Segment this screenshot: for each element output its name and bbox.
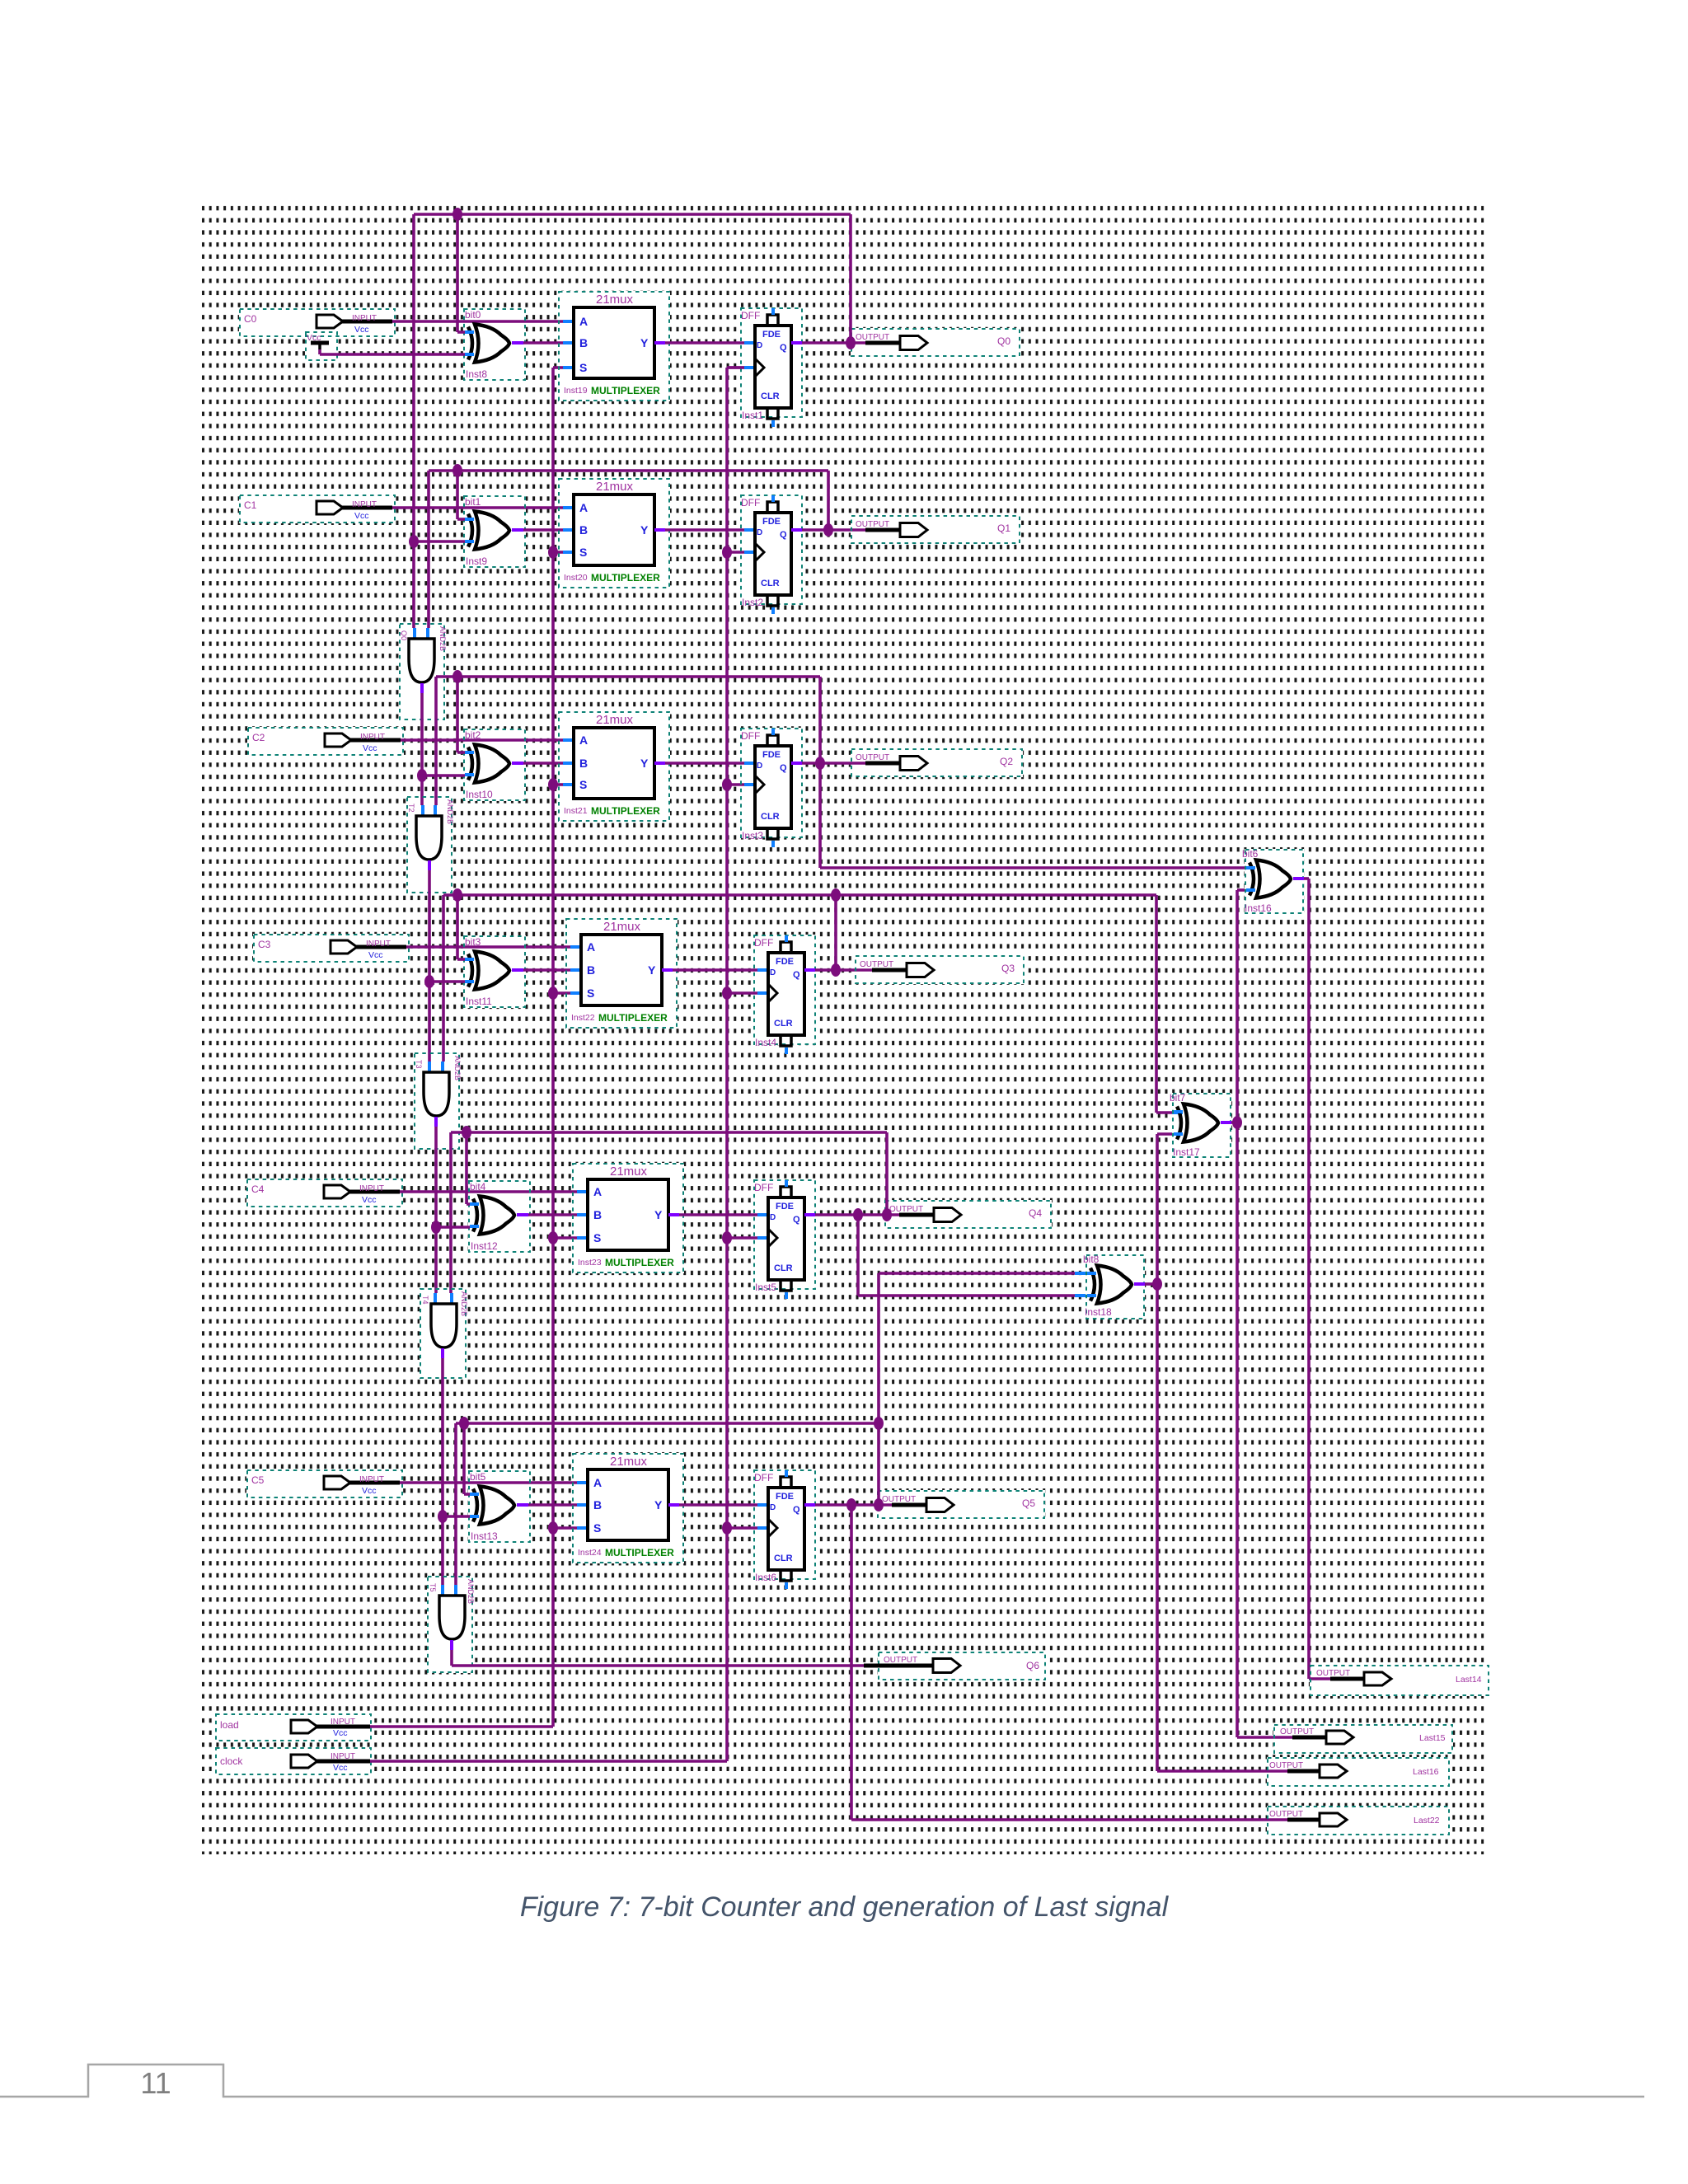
- wire AND2 output to XOR Inst11 lower input: [424, 975, 465, 988]
- svg-text:INPUT: INPUT: [359, 1475, 384, 1484]
- svg-text:Q4: Q4: [1029, 1207, 1042, 1219]
- wire Q2 feedback (row3 top): [436, 670, 820, 683]
- 2:1 multiplexer Inst21 (21mux): [559, 712, 669, 821]
- wire AND3 output down to AND4: [435, 1117, 436, 1304]
- wire Q2 down to XOR Inst16 upper input: [820, 763, 1255, 868]
- output port Last22: [1268, 1807, 1449, 1835]
- svg-text:A: A: [593, 1476, 602, 1489]
- wire clock net to flip-flop C pin: [722, 987, 768, 1000]
- AND gate Inst14 (T2 = Q0·Q1): [400, 624, 447, 719]
- svg-text:DFF: DFF: [754, 1472, 773, 1483]
- svg-text:MULTIPLEXER: MULTIPLEXER: [591, 572, 660, 583]
- svg-text:Q5: Q5: [1022, 1497, 1035, 1509]
- svg-text:OUTPUT: OUTPUT: [1269, 1761, 1303, 1770]
- svg-text:INPUT: INPUT: [359, 1184, 384, 1193]
- wire Q2 down to AND2 input: [435, 677, 436, 816]
- wire XOR Inst13 output to mux B pin: [517, 1503, 588, 1507]
- svg-text:Q: Q: [780, 530, 787, 540]
- wire mux Y output to flip-flop D pin: [668, 1213, 768, 1216]
- svg-text:D: D: [757, 528, 762, 537]
- svg-text:Q6: Q6: [1026, 1660, 1039, 1671]
- svg-text:MULTIPLEXER: MULTIPLEXER: [605, 1257, 674, 1268]
- svg-text:Inst5: Inst5: [755, 1282, 776, 1293]
- svg-text:bit2: bit2: [465, 729, 481, 741]
- svg-text:21mux: 21mux: [596, 293, 634, 307]
- wire Q5 down to AND5 input: [454, 1423, 457, 1596]
- input port C4: [247, 1179, 402, 1207]
- wire AND1 output to XOR Inst10 lower input: [417, 769, 465, 782]
- wire Q5 vertical to XOR Inst13 upper input: [464, 1423, 470, 1494]
- svg-text:CLR: CLR: [774, 1019, 793, 1029]
- svg-text:DFF: DFF: [741, 730, 760, 742]
- AND gate Inst22b (T5 = T4·Q4): [420, 1289, 468, 1378]
- svg-text:Q0: Q0: [400, 630, 408, 640]
- svg-text:OUTPUT: OUTPUT: [1280, 1727, 1314, 1736]
- wire Q0 feedback right vertical: [846, 214, 856, 349]
- svg-text:Inst1: Inst1: [742, 410, 763, 421]
- output port Last15: [1274, 1725, 1452, 1753]
- svg-text:B: B: [579, 523, 588, 537]
- svg-text:Y: Y: [654, 1208, 663, 1221]
- svg-text:21mux: 21mux: [596, 713, 634, 727]
- D flip-flop Inst6 (FDE): [754, 1470, 815, 1589]
- output port Q6: [864, 1652, 1045, 1680]
- svg-text:C2: C2: [252, 732, 265, 743]
- svg-text:Last15: Last15: [1419, 1733, 1446, 1743]
- wire Q4 vertical to XOR Inst12 upper input: [467, 1132, 470, 1204]
- schematic dotted grid background: [201, 203, 1484, 1854]
- svg-text:Vcc: Vcc: [333, 1728, 348, 1738]
- svg-text:AND2B: AND2B: [438, 626, 447, 651]
- wire select net to mux S pin: [548, 778, 574, 791]
- D flip-flop Inst2 (FDE): [741, 495, 802, 614]
- output port Q3: [856, 956, 1024, 983]
- input port clock: [216, 1748, 371, 1774]
- XOR gate Inst18: [1083, 1254, 1144, 1319]
- svg-text:OUTPUT: OUTPUT: [889, 1205, 923, 1214]
- XOR gate Inst11 (toggle for bit 3): [464, 936, 525, 1007]
- svg-text:Vcc: Vcc: [368, 950, 383, 960]
- svg-text:21mux: 21mux: [610, 1455, 648, 1469]
- svg-text:Inst16: Inst16: [1245, 902, 1272, 914]
- wire AND1 output down to AND2: [422, 683, 423, 816]
- wire C4 input net to mux A pin: [400, 1190, 588, 1193]
- output port Q0: [851, 329, 1020, 356]
- svg-text:CLR: CLR: [761, 391, 780, 401]
- svg-text:C4: C4: [251, 1183, 265, 1195]
- wire XOR Inst10 output to mux B pin: [512, 762, 574, 765]
- svg-text:Inst17: Inst17: [1173, 1146, 1200, 1158]
- svg-text:DFF: DFF: [754, 937, 773, 949]
- svg-text:OUTPUT: OUTPUT: [860, 960, 893, 969]
- output port Q1: [851, 516, 1020, 543]
- svg-text:bit5: bit5: [470, 1471, 486, 1483]
- svg-text:C3: C3: [258, 939, 271, 950]
- svg-text:DFF: DFF: [754, 1182, 773, 1193]
- wire AND4 output to XOR Inst13 lower input: [438, 1510, 470, 1523]
- wire select net to mux S pin: [548, 1231, 588, 1244]
- input port C5: [247, 1470, 402, 1497]
- svg-text:AND2B: AND2B: [467, 1579, 475, 1604]
- svg-text:Inst18: Inst18: [1085, 1306, 1112, 1318]
- svg-text:Inst3: Inst3: [742, 830, 763, 841]
- svg-text:Y: Y: [640, 757, 649, 770]
- svg-text:CLR: CLR: [761, 812, 780, 822]
- wire Q5 feedback (row6 top): [456, 1417, 884, 1430]
- svg-text:Figure 7: 7-bit Counter and ge: Figure 7: 7-bit Counter and generation o…: [520, 1891, 1170, 1923]
- svg-text:INPUT: INPUT: [331, 1752, 355, 1761]
- wire C5 input net to mux A pin: [400, 1481, 588, 1484]
- 2:1 multiplexer Inst20 (21mux): [559, 479, 669, 588]
- input port C3: [254, 935, 409, 962]
- svg-text:bit3: bit3: [465, 936, 481, 948]
- svg-text:OUTPUT: OUTPUT: [884, 1656, 917, 1665]
- svg-text:Inst9: Inst9: [466, 555, 487, 567]
- svg-text:Q3: Q3: [1001, 963, 1015, 974]
- svg-text:S: S: [579, 778, 587, 791]
- wire Q3 net down to Q3 output wire: [831, 895, 841, 977]
- 2:1 multiplexer Inst23 (21mux): [573, 1164, 683, 1272]
- wire Q2 vertical to XOR Inst10 upper input: [457, 677, 465, 752]
- wire mux Y output to flip-flop D pin: [654, 341, 755, 344]
- wire Q4 down to AND4 input: [451, 1132, 452, 1304]
- AND gate Inst15 (T3 = T2·Q2): [407, 797, 454, 893]
- output port Last16: [1268, 1758, 1449, 1786]
- output port Q5: [878, 1491, 1044, 1518]
- page footer rule and number: [0, 2064, 1644, 2100]
- wire XOR Inst16 output to output Last14: [1293, 879, 1330, 1679]
- svg-text:Vcc: Vcc: [354, 511, 369, 521]
- wire mux Y output to flip-flop D pin: [662, 968, 768, 972]
- wire XOR Inst18 output down and up to XOR Inst17 lower input: [1134, 1134, 1287, 1771]
- AND gate Inst23b (T6 = T5·Q5): [428, 1577, 475, 1672]
- wire mux Y output to flip-flop D pin: [668, 1503, 768, 1507]
- svg-text:Q1: Q1: [997, 523, 1010, 534]
- svg-text:FDE: FDE: [776, 957, 794, 967]
- AND gate Inst21b (T4 = T3·Q3): [415, 1053, 462, 1149]
- wire Q5 up to XOR Inst18 upper input: [879, 1273, 1085, 1423]
- svg-text:D: D: [770, 1503, 776, 1512]
- svg-text:T5: T5: [429, 1583, 437, 1592]
- svg-text:Inst6: Inst6: [755, 1572, 776, 1583]
- svg-text:C1: C1: [244, 499, 257, 511]
- wire XOR Inst8 output to mux B pin: [512, 341, 574, 344]
- svg-text:B: B: [593, 1208, 602, 1221]
- XOR gate Inst17: [1170, 1092, 1231, 1158]
- D flip-flop Inst5 (FDE): [754, 1180, 815, 1299]
- svg-text:Vcc: Vcc: [333, 1763, 348, 1773]
- wire Q1 down to AND1 input: [428, 471, 429, 639]
- svg-text:Y: Y: [648, 963, 656, 977]
- svg-text:DFF: DFF: [741, 310, 760, 321]
- svg-text:OUTPUT: OUTPUT: [1269, 1810, 1303, 1819]
- wire AND3 output to XOR Inst12 lower input: [431, 1221, 470, 1234]
- wire C2 input net to mux A pin: [401, 738, 574, 742]
- wire select net to mux S pin: [548, 1521, 588, 1535]
- wire select net to mux S pin: [548, 546, 574, 559]
- svg-text:Inst22: Inst22: [571, 1013, 595, 1023]
- svg-text:CLR: CLR: [774, 1263, 793, 1273]
- svg-text:B: B: [579, 757, 588, 770]
- wire Q3 to XOR Inst17 upper input: [1156, 895, 1183, 1113]
- svg-text:Vcc: Vcc: [354, 325, 369, 335]
- svg-text:Inst21: Inst21: [564, 806, 588, 816]
- wire load input to select vertical: [370, 1725, 553, 1728]
- svg-text:S: S: [593, 1521, 601, 1535]
- svg-text:Inst24: Inst24: [578, 1548, 602, 1558]
- wire Q0 vertical to XOR Inst8 upper input: [457, 214, 465, 332]
- svg-text:bit1: bit1: [465, 496, 481, 508]
- wire select net to mux S pin: [548, 987, 581, 1000]
- wire load/select vertical net: [551, 368, 555, 1727]
- wire XOR Inst11 output to mux B pin: [512, 968, 581, 972]
- svg-text:MULTIPLEXER: MULTIPLEXER: [591, 805, 660, 817]
- svg-text:S: S: [587, 987, 594, 1000]
- svg-text:bit4: bit4: [470, 1181, 486, 1193]
- svg-text:Q: Q: [780, 763, 787, 773]
- wire flip-flop Q to output port Q3: [804, 968, 872, 972]
- wire C1 input net to mux A pin: [392, 506, 574, 509]
- svg-text:C5: C5: [251, 1474, 265, 1486]
- svg-text:D: D: [757, 341, 762, 350]
- wire AND5 output to output port Q6: [452, 1640, 864, 1666]
- svg-text:S: S: [579, 546, 587, 559]
- wire Q0 feedback (row1 top): [414, 208, 851, 221]
- wire Q3 vertical to XOR Inst11 upper input: [457, 895, 465, 959]
- svg-text:Inst20: Inst20: [564, 573, 588, 583]
- svg-text:Inst11: Inst11: [466, 996, 492, 1007]
- svg-text:bit8: bit8: [1083, 1254, 1100, 1265]
- svg-text:D: D: [770, 968, 776, 977]
- wire flip-flop Q to output port Q4: [804, 1213, 899, 1216]
- svg-text:Inst19: Inst19: [564, 386, 588, 396]
- wire Q2 feedback right vertical: [815, 677, 825, 770]
- output port Last14: [1311, 1666, 1489, 1695]
- svg-text:Last14: Last14: [1456, 1675, 1482, 1685]
- Vcc power symbol (row 1 XOR constant input): [306, 332, 337, 360]
- svg-text:Inst8: Inst8: [466, 368, 487, 380]
- wire Vcc to XOR Inst8 lower input: [320, 349, 465, 354]
- output port Q2: [851, 749, 1022, 776]
- wire Q4 feedback right vertical: [882, 1132, 892, 1221]
- svg-text:A: A: [593, 1185, 602, 1198]
- wire clock net to flip-flop C pin: [722, 546, 755, 559]
- svg-text:OUTPUT: OUTPUT: [856, 333, 889, 342]
- svg-text:AND2B: AND2B: [460, 1291, 468, 1316]
- svg-text:Q: Q: [793, 970, 800, 980]
- input port C1: [240, 495, 395, 523]
- svg-text:MULTIPLEXER: MULTIPLEXER: [605, 1547, 674, 1558]
- svg-text:FDE: FDE: [762, 517, 781, 527]
- wire flip-flop Q to output port Q1: [791, 528, 865, 532]
- svg-text:FDE: FDE: [776, 1202, 794, 1212]
- D flip-flop Inst4 (FDE): [754, 935, 815, 1054]
- svg-text:Inst4: Inst4: [755, 1037, 776, 1048]
- svg-text:CLR: CLR: [761, 579, 780, 588]
- XOR gate Inst13 (toggle for bit 5): [469, 1471, 530, 1542]
- svg-text:B: B: [587, 963, 595, 977]
- svg-text:21mux: 21mux: [610, 1165, 648, 1179]
- svg-text:D: D: [757, 762, 762, 771]
- input port C0: [240, 309, 395, 336]
- wire Q5 feedback right vertical to Q5 output wire: [874, 1423, 884, 1511]
- wire clock input to clock vertical: [370, 1760, 727, 1763]
- svg-text:Q: Q: [793, 1215, 800, 1225]
- svg-text:A: A: [587, 940, 595, 954]
- XOR gate Inst8 (toggle for bit 0): [464, 309, 525, 380]
- svg-text:B: B: [579, 336, 588, 349]
- output port Q4: [885, 1201, 1051, 1228]
- svg-text:D: D: [770, 1213, 776, 1222]
- wire XOR Inst17 output to vertical and XOR Inst16 lower input: [1221, 890, 1292, 1737]
- wire Q4 feedback (row5 top): [451, 1126, 887, 1139]
- wire XOR Inst9 output to mux B pin: [512, 528, 574, 532]
- wire Q3 down to AND3 input: [443, 895, 443, 1072]
- svg-text:Vcc: Vcc: [362, 1195, 377, 1205]
- svg-text:Q: Q: [793, 1505, 800, 1515]
- svg-text:T4: T4: [421, 1296, 429, 1305]
- svg-text:A: A: [579, 315, 588, 328]
- svg-text:11: 11: [140, 2066, 171, 2100]
- svg-text:INPUT: INPUT: [352, 314, 377, 323]
- XOR gate Inst10 (toggle for bit 2): [464, 729, 525, 800]
- svg-text:Inst2: Inst2: [742, 597, 763, 608]
- svg-text:bit0: bit0: [465, 309, 481, 321]
- wire clock net to flip-flop C pin: [722, 1521, 768, 1535]
- wire mux Y output to flip-flop D pin: [654, 528, 755, 532]
- svg-text:OUTPUT: OUTPUT: [1316, 1669, 1350, 1678]
- svg-text:FDE: FDE: [762, 330, 781, 340]
- wire Q3 feedback (row4 top): [443, 888, 1156, 902]
- svg-text:T3: T3: [415, 1060, 423, 1069]
- svg-text:Inst12: Inst12: [471, 1240, 498, 1252]
- wire clock net to flip-flop C pin: [722, 778, 755, 791]
- svg-text:AND2B: AND2B: [446, 799, 454, 824]
- XOR gate Inst16 (Last generation: Q2 xor T): [1242, 848, 1303, 914]
- wire flip-flop Q to output port Q5: [804, 1503, 892, 1507]
- svg-text:INPUT: INPUT: [352, 500, 377, 509]
- svg-text:Vcc: Vcc: [362, 1486, 377, 1496]
- svg-text:OUTPUT: OUTPUT: [856, 753, 889, 762]
- wire Q5 down to output Last22: [846, 1498, 1287, 1820]
- svg-text:INPUT: INPUT: [360, 733, 385, 742]
- input port C2: [248, 728, 403, 755]
- svg-text:MULTIPLEXER: MULTIPLEXER: [591, 385, 660, 396]
- svg-text:DFF: DFF: [741, 497, 760, 509]
- white selection-highlight fills under dashed boxes: [215, 291, 1489, 1835]
- wire flip-flop Q to output port Q0: [791, 341, 865, 344]
- wire flip-flop Q to output port Q2: [791, 762, 865, 765]
- XOR gate Inst9 (toggle for bit 1): [464, 496, 525, 567]
- wire select net to mux S pin: [553, 366, 574, 369]
- svg-text:Y: Y: [654, 1498, 663, 1511]
- wire C0 input net to mux A pin: [392, 320, 574, 323]
- svg-text:Y: Y: [640, 523, 649, 537]
- svg-text:C0: C0: [244, 313, 257, 325]
- svg-text:load: load: [220, 1719, 239, 1731]
- wire Q1 feedback (row2 top): [429, 464, 828, 477]
- svg-text:OUTPUT: OUTPUT: [856, 520, 889, 529]
- svg-text:Q2: Q2: [1000, 756, 1013, 767]
- wire AND2 output down to AND3: [428, 860, 431, 1072]
- svg-text:bit6: bit6: [1242, 848, 1259, 860]
- wire Q1 vertical to XOR Inst9 upper input: [457, 471, 465, 519]
- svg-text:B: B: [593, 1498, 602, 1511]
- XOR gate Inst12 (toggle for bit 4): [469, 1181, 530, 1252]
- svg-text:Last22: Last22: [1414, 1816, 1440, 1825]
- wire mux Y output to flip-flop D pin: [654, 762, 755, 765]
- svg-text:Inst13: Inst13: [471, 1530, 498, 1542]
- svg-text:OUTPUT: OUTPUT: [882, 1495, 916, 1504]
- 2:1 multiplexer Inst24 (21mux): [573, 1454, 683, 1563]
- D flip-flop Inst3 (FDE): [741, 729, 802, 847]
- svg-text:FDE: FDE: [776, 1492, 794, 1502]
- input port load: [216, 1714, 371, 1741]
- svg-text:Q0: Q0: [997, 335, 1010, 347]
- 2:1 multiplexer Inst22 (21mux): [566, 919, 677, 1028]
- svg-text:A: A: [579, 501, 588, 514]
- svg-text:AND2B: AND2B: [453, 1056, 462, 1080]
- svg-text:bit7: bit7: [1170, 1092, 1186, 1104]
- wire Q0 to XOR Inst9 lower input: [409, 535, 465, 548]
- svg-text:Y: Y: [640, 336, 649, 349]
- svg-text:Vcc: Vcc: [363, 743, 377, 753]
- wire Q0 down left column to AND1 input: [414, 214, 415, 639]
- wire clock net to flip-flop C pin: [727, 366, 755, 369]
- svg-text:S: S: [579, 361, 587, 374]
- svg-text:S: S: [593, 1231, 601, 1244]
- svg-text:21mux: 21mux: [603, 920, 641, 934]
- svg-text:A: A: [579, 733, 588, 747]
- svg-text:MULTIPLEXER: MULTIPLEXER: [598, 1012, 668, 1024]
- wire clock vertical net: [727, 368, 744, 1761]
- svg-text:clock: clock: [220, 1755, 243, 1767]
- svg-text:Last16: Last16: [1413, 1767, 1439, 1777]
- svg-text:INPUT: INPUT: [331, 1718, 355, 1727]
- svg-text:Inst23: Inst23: [578, 1258, 602, 1268]
- D flip-flop Inst1 (FDE): [741, 308, 802, 427]
- wire XOR Inst12 output to mux B pin: [517, 1213, 588, 1216]
- svg-text:T2: T2: [407, 804, 415, 813]
- wire Q4 down to XOR Inst18 lower input: [853, 1208, 1085, 1296]
- svg-text:FDE: FDE: [762, 750, 781, 760]
- 2:1 multiplexer Inst19 (21mux): [559, 292, 669, 401]
- svg-text:Q: Q: [780, 343, 787, 353]
- svg-text:21mux: 21mux: [596, 480, 634, 494]
- wire AND4 output down to AND5: [441, 1348, 444, 1596]
- svg-text:Inst10: Inst10: [466, 789, 493, 800]
- wire Q1 feedback right vertical: [823, 471, 833, 537]
- wire clock net to flip-flop C pin: [722, 1231, 768, 1244]
- svg-text:INPUT: INPUT: [366, 940, 391, 949]
- wire C3 input net to mux A pin: [406, 945, 581, 949]
- svg-text:CLR: CLR: [774, 1554, 793, 1563]
